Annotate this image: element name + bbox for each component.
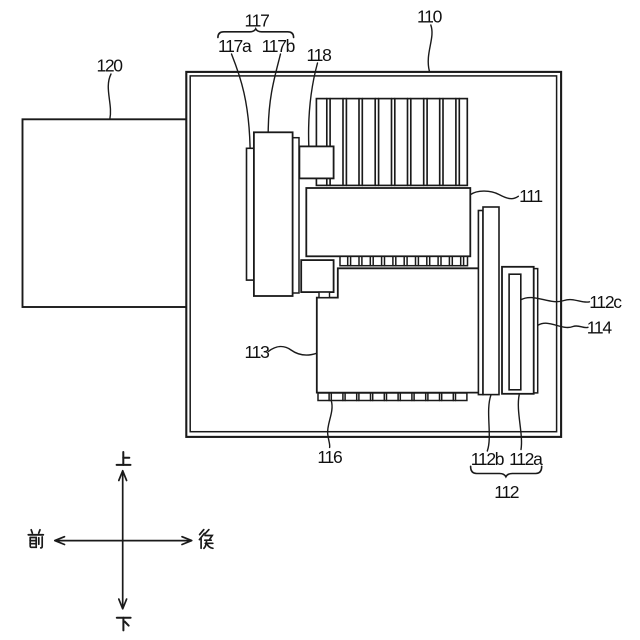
svg-text:118: 118 — [307, 45, 332, 65]
leader 110 — [428, 25, 432, 71]
heatsink fins top — [316, 99, 467, 186]
block 118 — [299, 146, 333, 178]
svg-text:113: 113 — [245, 342, 270, 362]
svg-text:117a: 117a — [218, 36, 252, 56]
leader 112a — [518, 395, 521, 450]
capacitor 114 body — [502, 267, 534, 394]
svg-text:110: 110 — [417, 7, 443, 27]
compass horizontal axis — [57, 540, 191, 542]
svg-text:112: 112 — [494, 482, 519, 502]
leader 112c — [521, 298, 590, 303]
svg-text:112b: 112b — [471, 449, 504, 469]
svg-text:114: 114 — [587, 318, 613, 338]
leader 117b — [268, 54, 280, 132]
leader 111 — [470, 191, 518, 199]
motor body 111 — [306, 188, 470, 256]
capacitor 114 rear sliver — [534, 269, 538, 393]
bottom comb teeth under 113 — [318, 393, 467, 401]
svg-text:111: 111 — [519, 186, 542, 206]
kanji ushiro (rear) — [199, 530, 213, 549]
leader 117a — [232, 54, 251, 148]
leader 120 — [108, 74, 111, 119]
svg-text:112a: 112a — [509, 449, 543, 469]
svg-text:117: 117 — [245, 11, 270, 31]
plate 117b — [254, 132, 293, 296]
compass vertical axis — [122, 474, 124, 608]
svg-text:120: 120 — [96, 56, 123, 76]
plate 112a — [483, 207, 499, 395]
svg-text:116: 116 — [317, 447, 342, 467]
box 120 — [23, 119, 191, 307]
inverter body 113 — [317, 268, 479, 392]
brace 112 — [471, 466, 542, 477]
kanji ue (up) — [117, 452, 131, 465]
svg-text:117b: 117b — [262, 36, 295, 56]
mid comb teeth under 111 — [340, 256, 468, 265]
svg-text:112c: 112c — [589, 292, 622, 312]
leader 118 — [309, 63, 318, 146]
rear strip of 117 — [293, 138, 299, 293]
lower block — [301, 260, 333, 292]
leader 116 — [328, 401, 332, 448]
plate 117a — [247, 148, 254, 280]
housing 110 inner frame — [190, 76, 556, 432]
leader 112b — [487, 395, 491, 451]
kanji mae (front) — [28, 530, 43, 548]
brace 117 — [218, 29, 294, 38]
leader 113 — [268, 347, 316, 355]
housing 110 outer frame — [186, 72, 561, 437]
lower block foot — [319, 292, 330, 298]
kanji shita (down) — [117, 618, 131, 631]
plate 112b — [478, 211, 483, 395]
plate 112c — [509, 274, 521, 390]
leader 114 — [538, 323, 588, 327]
